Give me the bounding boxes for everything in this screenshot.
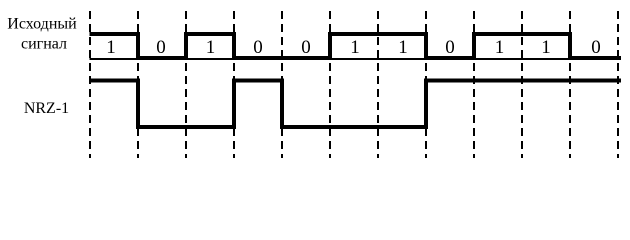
svg-text:0: 0 <box>445 37 455 58</box>
svg-text:сигнал: сигнал <box>21 36 67 53</box>
svg-text:0: 0 <box>301 37 311 58</box>
thin baseline of source-signal bit row <box>90 58 622 60</box>
svg-text:1: 1 <box>206 37 216 58</box>
grid line 6 <box>329 11 331 158</box>
source signal waveform (bits 1 0 1 0 0 1 1 0 1 1 0) <box>90 34 622 58</box>
grid line 8 <box>425 11 427 158</box>
grid line 4 <box>233 11 235 158</box>
label: Исходный сигнал <box>7 16 77 53</box>
grid line 5 <box>281 11 283 158</box>
svg-text:0: 0 <box>591 37 601 58</box>
grid line 12 <box>617 11 619 158</box>
svg-text:NRZ-1: NRZ-1 <box>24 100 69 117</box>
svg-text:0: 0 <box>156 37 166 58</box>
svg-text:1: 1 <box>350 37 360 58</box>
svg-text:1: 1 <box>495 37 505 58</box>
bit value digits <box>106 37 601 58</box>
bit-cell boundary dashed grid lines <box>90 11 618 158</box>
grid line 11 <box>569 11 571 158</box>
svg-text:1: 1 <box>106 37 116 58</box>
grid line 2 <box>137 11 139 158</box>
grid line 3 <box>185 11 187 158</box>
NRZ-1 waveform <box>90 81 622 128</box>
svg-text:Исходный: Исходный <box>7 16 77 33</box>
svg-text:1: 1 <box>541 37 551 58</box>
svg-text:1: 1 <box>398 37 408 58</box>
svg-text:0: 0 <box>253 37 263 58</box>
grid line 1 <box>89 11 91 158</box>
grid line 9 <box>473 11 475 158</box>
grid line 7 <box>377 11 379 158</box>
grid line 10 <box>521 11 523 158</box>
